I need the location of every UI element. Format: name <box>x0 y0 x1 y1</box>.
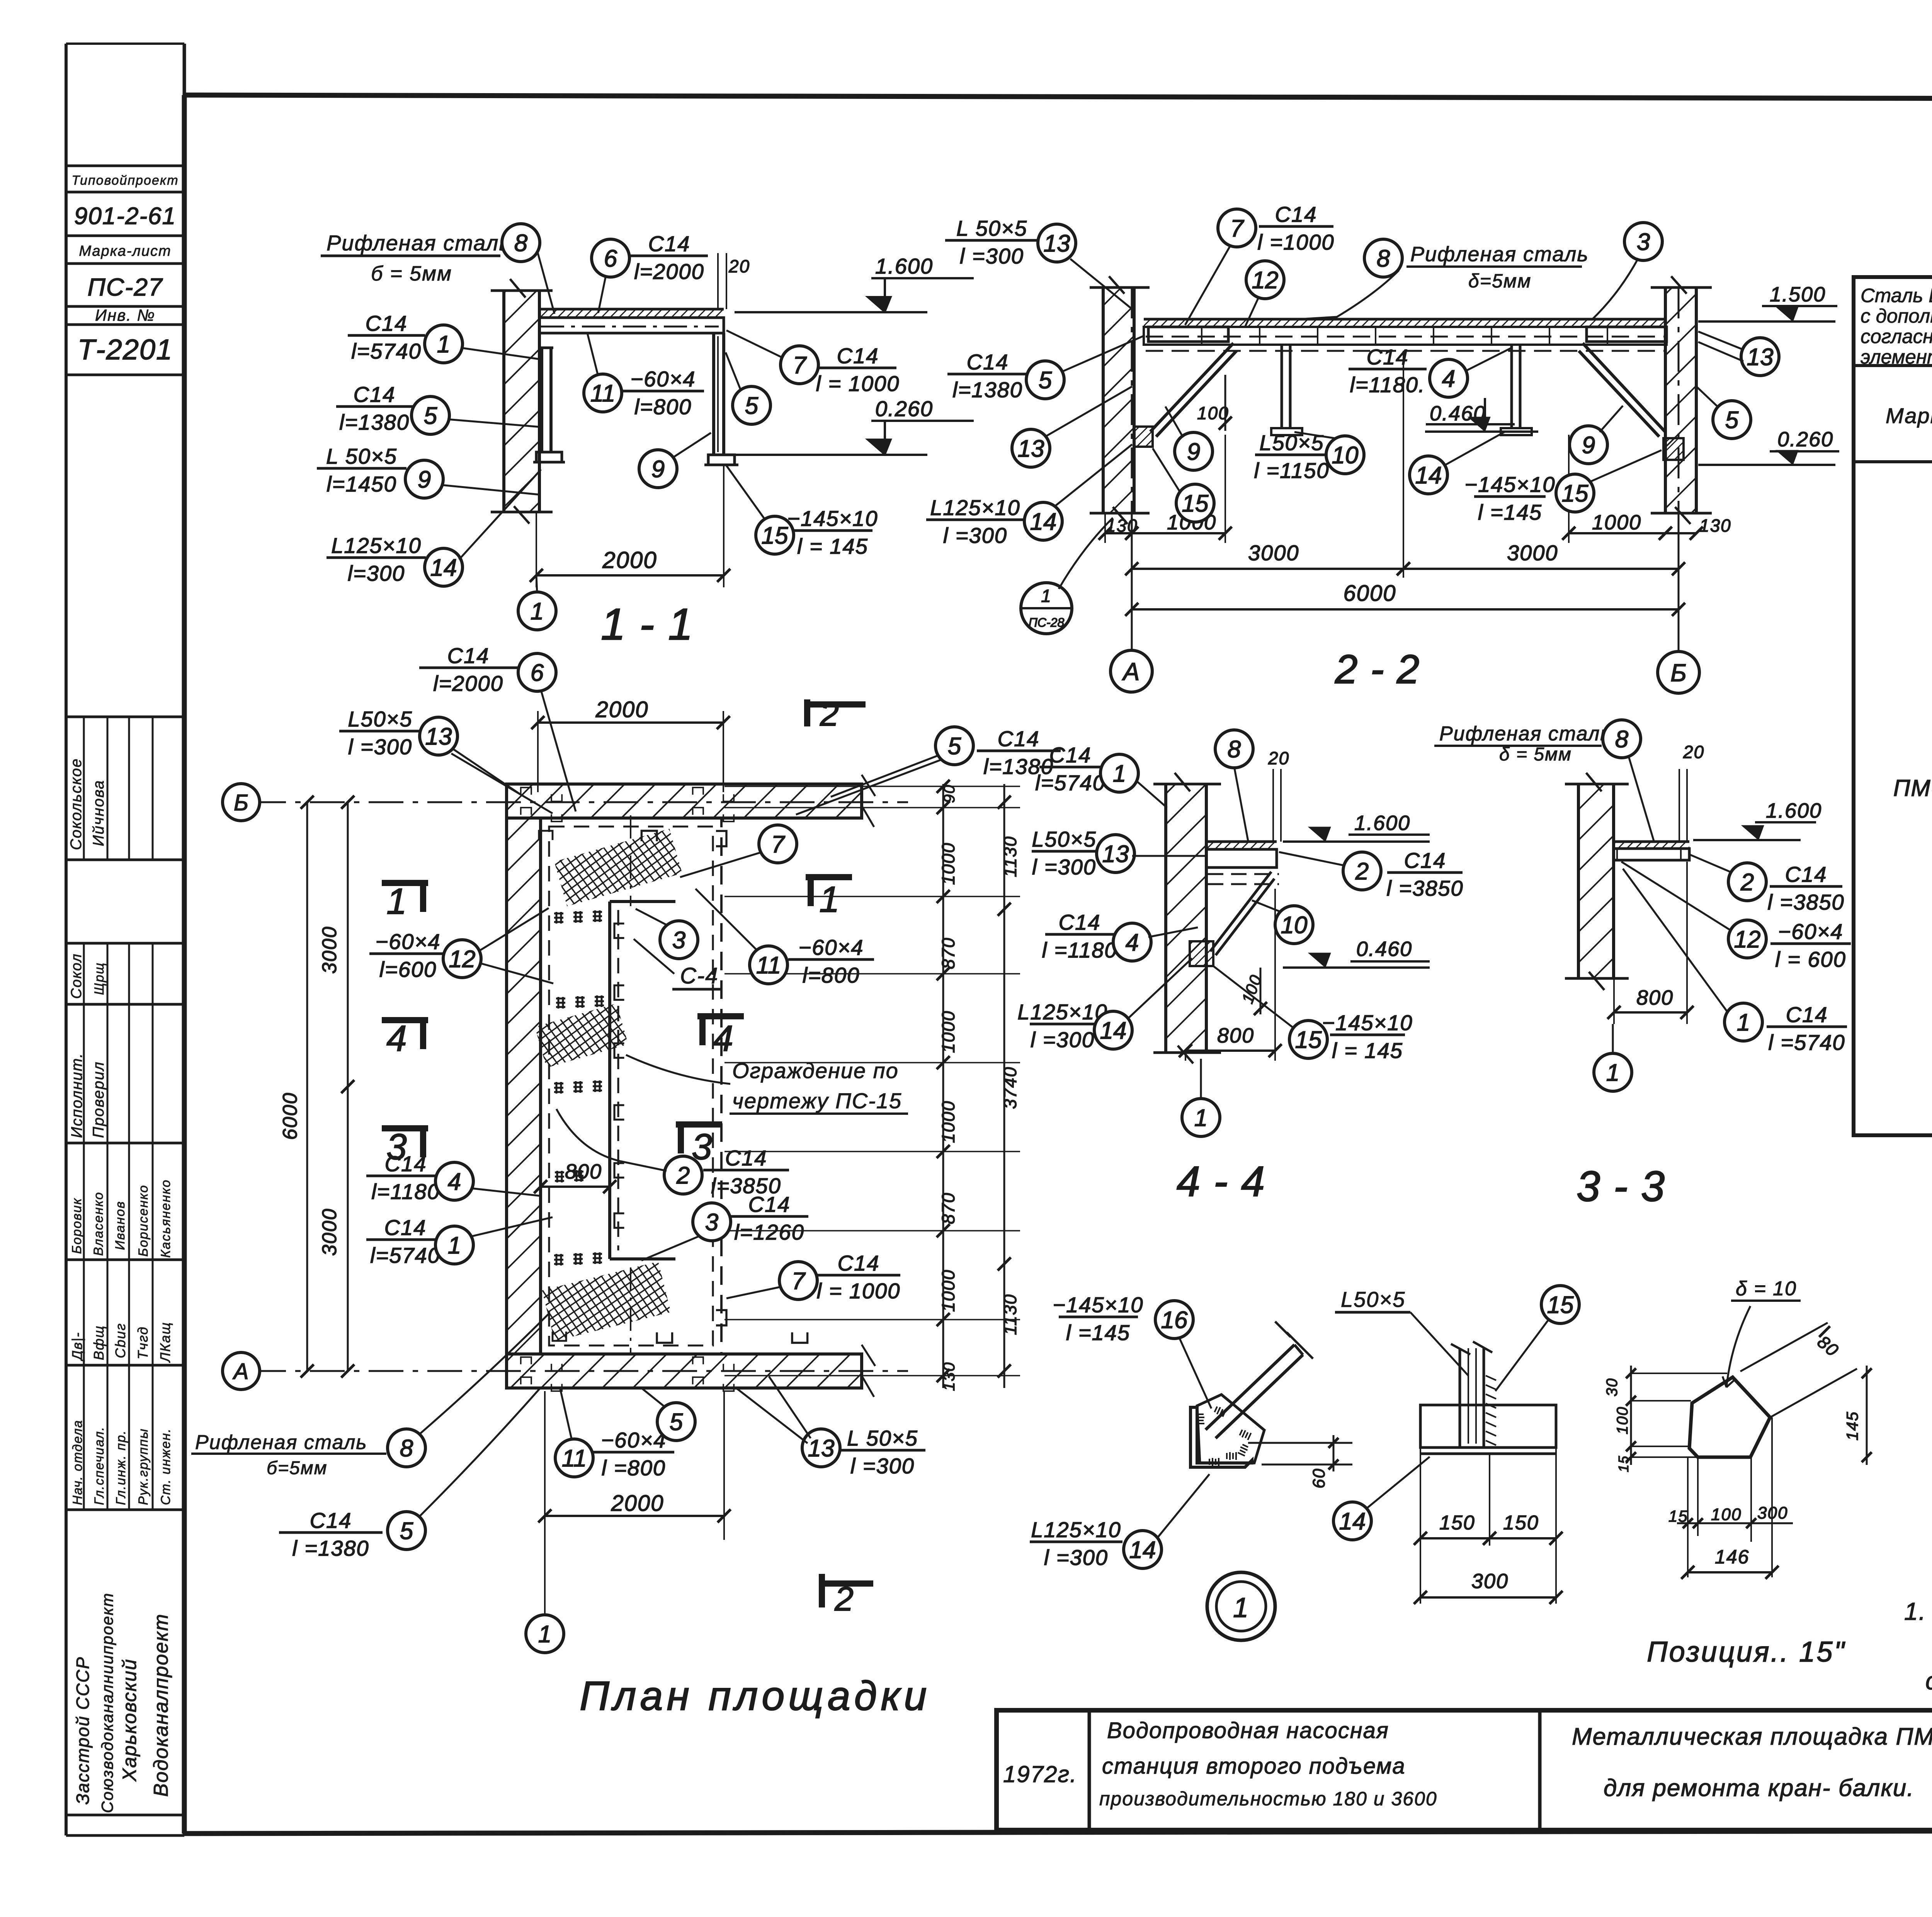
svg-text:11: 11 <box>562 1445 587 1472</box>
svg-text:−60×4: −60×4 <box>799 935 864 959</box>
svg-text:С14: С14 <box>998 726 1040 751</box>
section 1-1 node circle 1 <box>518 575 556 630</box>
svg-text:l=1180.: l=1180. <box>1350 373 1425 397</box>
svg-text:С14: С14 <box>1367 345 1409 369</box>
svg-text:1: 1 <box>1041 586 1052 606</box>
label L50x5 l=300 pos.13 top-left <box>945 216 1132 309</box>
svg-text:5: 5 <box>1039 367 1052 394</box>
svg-text:4: 4 <box>386 1018 408 1059</box>
svg-text:l =1380: l =1380 <box>292 1536 369 1560</box>
section 2-2 level 1.600 right <box>1698 283 1837 321</box>
svg-text:1: 1 <box>437 331 450 358</box>
svg-text:ПС-28: ПС-28 <box>1029 616 1065 629</box>
plan label fence note <box>626 1055 908 1114</box>
plan axis A line and circle <box>223 1352 908 1390</box>
svg-text:l=2000: l=2000 <box>634 259 704 284</box>
svg-text:15: 15 <box>762 522 788 549</box>
svg-text:3000: 3000 <box>318 1208 341 1256</box>
svg-text:14: 14 <box>1030 509 1057 535</box>
detail B dims 150/150/300 <box>1414 1448 1563 1604</box>
svg-text:14: 14 <box>1129 1537 1156 1563</box>
svg-text:9: 9 <box>1582 432 1595 459</box>
svg-text:8: 8 <box>400 1435 413 1462</box>
svg-text:5: 5 <box>400 1518 413 1544</box>
svg-text:5: 5 <box>1725 407 1739 434</box>
svg-text:Засстрой СССР: Засстрой СССР <box>73 1657 93 1805</box>
svg-text:15: 15 <box>1547 1292 1574 1318</box>
svg-text:l =145: l =145 <box>1066 1320 1130 1345</box>
svg-text:Рифленая сталь: Рифленая сталь <box>1410 243 1589 266</box>
svg-text:1: 1 <box>538 1621 551 1648</box>
plan riffled steel patch middle (mesh) <box>535 1004 628 1068</box>
svg-text:800: 800 <box>1217 1024 1254 1047</box>
svg-text:1: 1 <box>1233 1592 1249 1623</box>
svg-text:δ = 10: δ = 10 <box>1736 1277 1797 1300</box>
svg-text:Позиция.. 15": Позиция.. 15" <box>1647 1636 1846 1668</box>
svg-text:901-2-61: 901-2-61 <box>74 203 176 230</box>
plan riffled steel patch bottom (mesh) <box>542 1262 671 1341</box>
plan label circle 5 bottom <box>641 1388 695 1441</box>
svg-text:3000: 3000 <box>1248 541 1299 565</box>
svg-text:1: 1 <box>1113 760 1126 787</box>
section 1-1 level mark 0.260 <box>735 454 927 456</box>
label 4-4 L125x10 l=300 pos.14 <box>1017 958 1192 1052</box>
svg-text:Б: Б <box>234 790 248 815</box>
svg-text:l=1180: l=1180 <box>371 1179 440 1204</box>
svg-text:l=2000: l=2000 <box>433 671 503 696</box>
section 4-4 wall (hatched) <box>1153 773 1221 1063</box>
label 4-4 circle 8 <box>1215 730 1253 841</box>
section 2-2 deck riffled plate pos.8 <box>1144 319 1667 327</box>
svg-text:Типовойпроект: Типовойпроект <box>71 173 179 188</box>
label circle 5 right <box>1696 386 1751 439</box>
svg-text:l =145: l =145 <box>1478 500 1542 524</box>
svg-text:станция второго подъема: станция второго подъема <box>1102 1754 1406 1779</box>
plan section flag 2 bottom <box>822 1574 873 1618</box>
title block project name <box>1099 1718 1437 1810</box>
svg-text:С14: С14 <box>748 1192 791 1216</box>
svg-text:L 50×5: L 50×5 <box>326 444 397 468</box>
label L125x10 l=300 pos.14 <box>327 469 541 586</box>
svg-text:Б: Б <box>1670 659 1687 687</box>
svg-text:10: 10 <box>1332 442 1359 469</box>
plan label circle 3 top <box>636 909 698 959</box>
svg-text:Т-2201: Т-2201 <box>78 333 173 366</box>
label 3-3 -60x4 l=600 pos.12 <box>1621 862 1851 971</box>
label 4-4 L50x5 l=300 pos.13 <box>1032 827 1206 879</box>
svg-text:1 - 1: 1 - 1 <box>601 600 694 649</box>
plan left wall band (hatched) <box>507 818 541 1354</box>
svg-text:с дополнительными гарантиями з: с дополнительными гарантиями загиба в хо… <box>1861 305 1932 327</box>
svg-text:100: 100 <box>1614 1406 1631 1434</box>
svg-text:130: 130 <box>940 1362 958 1391</box>
svg-text:146: 146 <box>1715 1546 1749 1568</box>
title block sheet name <box>1572 1723 1932 1801</box>
plan section flag 1 right <box>806 877 852 920</box>
plan label -60x4 l=800 pos.11 top <box>696 889 874 987</box>
spec table grid <box>1854 366 1932 1135</box>
svg-text:1130: 1130 <box>1000 836 1020 877</box>
svg-text:l =300: l =300 <box>348 735 412 759</box>
svg-text:1: 1 <box>386 881 408 922</box>
svg-text:13: 13 <box>1018 435 1044 462</box>
svg-text:12: 12 <box>1252 267 1279 294</box>
svg-text:Водопроводная насосная: Водопроводная насосная <box>1107 1718 1389 1743</box>
label 4-4 C14 l=1180 pos.4 <box>1042 910 1198 962</box>
plan section flag 3 right <box>676 1124 722 1167</box>
svg-text:Исполнит.: Исполнит. <box>68 1053 85 1138</box>
svg-text:11: 11 <box>590 380 615 407</box>
svg-text:60: 60 <box>1310 1468 1328 1488</box>
plan bottom dim 2000 <box>538 1391 731 1613</box>
plan label riffled steel pos.8 bottom <box>191 1314 549 1478</box>
detail A label -145x10 l=145 pos.16 <box>1053 1293 1211 1408</box>
svg-text:1000: 1000 <box>938 1101 958 1143</box>
svg-text:ПС-27: ПС-27 <box>87 273 163 301</box>
svg-text:С14: С14 <box>1049 743 1092 767</box>
label riffled steel pos.8 top <box>1299 239 1589 319</box>
section 2-2 left hanger C14 pos.4 <box>1271 345 1302 435</box>
detail B label L50x5 pos.15 <box>1335 1286 1579 1391</box>
svg-text:Сталь ВК Ст.3кп для сварных ко: Сталь ВК Ст.3кп для сварных конструкций … <box>1861 284 1932 306</box>
detail A angle with strut pos.14/16 <box>1190 1322 1313 1467</box>
plan channel marks inner edge <box>539 831 808 1343</box>
label riffled steel pos.8 <box>321 224 554 314</box>
section 1-1 wall bracket pos.11 <box>533 348 565 462</box>
svg-text:Борисенко: Борисенко <box>136 1185 151 1257</box>
svg-text:совместно с листом ПС - 1: совместно с листом ПС - 1 <box>1925 1667 1932 1695</box>
svg-text:1000: 1000 <box>938 1269 958 1312</box>
svg-text:l=5740: l=5740 <box>370 1243 440 1267</box>
svg-text:Марка: Марка <box>1886 403 1932 428</box>
plan riffled steel patch top (mesh) <box>554 829 682 907</box>
label L50x5 l=1450 pos.9 <box>317 444 539 498</box>
svg-text:4: 4 <box>448 1169 461 1195</box>
svg-text:l =300: l =300 <box>1032 855 1096 879</box>
svg-text:Металлическая площадка ПМ-2: Металлическая площадка ПМ-2 <box>1572 1723 1932 1750</box>
svg-text:3: 3 <box>672 927 685 954</box>
svg-text:7: 7 <box>1230 215 1245 242</box>
section 4-4 strut <box>1210 872 1274 955</box>
plan label C14 l=1180 pos.4 left <box>366 1152 541 1204</box>
svg-text:16: 16 <box>1161 1307 1188 1334</box>
svg-text:Сокол: Сокол <box>68 953 85 999</box>
plan section flag 4 right <box>697 1016 744 1059</box>
section 2-2 right bracket beam <box>1587 327 1667 342</box>
svg-text:l =300: l =300 <box>850 1454 915 1478</box>
svg-text:L50×5: L50×5 <box>1341 1287 1405 1311</box>
svg-text:3000: 3000 <box>318 926 341 974</box>
plan bottom wall band (hatched) <box>507 1345 875 1397</box>
plan label C14 l=1260 pos.3 <box>641 1192 808 1260</box>
svg-text:1: 1 <box>1194 1105 1207 1131</box>
svg-text:С14: С14 <box>967 350 1009 374</box>
svg-text:870: 870 <box>938 937 958 969</box>
svg-text:Сbuг: Сbuг <box>112 1323 128 1358</box>
svg-text:С14: С14 <box>1785 862 1827 886</box>
svg-text:Рифленая сталь: Рифленая сталь <box>327 231 511 255</box>
label circle 13 right wall <box>1698 332 1779 376</box>
svg-text:Марка-лист: Марка-лист <box>79 243 171 259</box>
svg-text:150: 150 <box>1439 1512 1475 1534</box>
spec table header text <box>1886 376 1932 450</box>
section 1-1 level mark 1.600 <box>735 311 927 313</box>
svg-text:3 - 3: 3 - 3 <box>1577 1163 1665 1210</box>
detail node double circle 1 <box>1207 1572 1275 1640</box>
svg-text:4: 4 <box>1126 929 1139 956</box>
section 2-2 level 0.260 right <box>1698 428 1839 465</box>
section 2-2 bottom dims 130/1000 <box>1099 435 1731 543</box>
svg-text:2: 2 <box>1740 869 1754 896</box>
plan dim 800 <box>534 1160 616 1193</box>
svg-text:130: 130 <box>1106 515 1138 536</box>
section 2-2 dim 100 left <box>1197 375 1232 431</box>
title block frame <box>997 1710 1932 1830</box>
label -145x10 l=145 pos.15 right <box>1464 450 1662 524</box>
svg-text:производительностью 180 и 3600: производительностью 180 и 3600 <box>1099 1788 1437 1810</box>
section 4-4 dim 100 <box>1238 968 1267 1015</box>
label circle 9 right strut <box>1570 406 1623 464</box>
detail C gusset plate pentagon <box>1689 1277 1801 1457</box>
label -145x10 l=145 pos.15 <box>726 466 878 558</box>
svg-text:δ = 5мм: δ = 5мм <box>1499 744 1572 765</box>
svg-text:5: 5 <box>948 733 961 760</box>
svg-text:С-4: С-4 <box>680 963 718 988</box>
svg-text:20: 20 <box>1683 742 1704 762</box>
svg-text:1000: 1000 <box>1592 511 1641 534</box>
label circle 13 left small <box>1012 386 1132 467</box>
svg-text:−60×4: −60×4 <box>1778 919 1844 944</box>
svg-text:7: 7 <box>792 1268 806 1294</box>
label C14 l=1380 pos.5 <box>336 382 541 434</box>
svg-text:С14: С14 <box>1275 202 1317 226</box>
svg-text:С14: С14 <box>838 1251 880 1275</box>
plan top dim 2000 <box>531 697 730 792</box>
label C14 l=1380 pos.5 left <box>947 336 1143 402</box>
stamp signature grid columns <box>84 717 153 1510</box>
svg-text:800: 800 <box>565 1160 602 1183</box>
svg-text:3: 3 <box>705 1209 718 1236</box>
detail C left dims 30/100/15 <box>1604 1366 1727 1472</box>
plan top wall band (hatched) <box>507 775 875 827</box>
svg-text:L125×10: L125×10 <box>1031 1517 1121 1542</box>
plan section flag 3 left <box>382 1126 428 1167</box>
svg-text:Ийчнова: Ийчнова <box>90 780 107 846</box>
label C14 l=1000 pos.7 <box>726 330 900 396</box>
plan section flag 2 top <box>807 695 866 733</box>
svg-text:l =3850: l =3850 <box>1386 876 1463 900</box>
svg-text:−145×10: −145×10 <box>1053 1293 1143 1317</box>
label circle 14 right hanger foot <box>1410 432 1505 494</box>
section 2-2 left bracket beam pos.7 <box>1148 327 1228 342</box>
plan platform dashed outline <box>541 818 721 1354</box>
plan label C-4 <box>634 939 723 989</box>
spec table frame <box>1854 277 1932 1135</box>
stamp text: project codes <box>71 173 179 366</box>
svg-text:Сокольское: Сокольское <box>68 758 85 850</box>
svg-text:1.500: 1.500 <box>1770 283 1826 306</box>
svg-text:согласно п.2.5,2д и предельног: согласно п.2.5,2д и предельного содержан… <box>1861 325 1932 347</box>
section 2-2 right hanger C14 pos.4 <box>1501 345 1532 435</box>
section 2-2 right wall (hatched) <box>1651 276 1712 524</box>
svg-text:А: А <box>1122 658 1140 685</box>
svg-text:С14: С14 <box>354 382 396 407</box>
svg-text:800: 800 <box>1636 986 1673 1009</box>
svg-text:L50×5: L50×5 <box>1032 827 1096 851</box>
svg-text:1000: 1000 <box>938 842 958 885</box>
label C14 l=1000 pos.7 top <box>1185 202 1335 325</box>
left stamp strip frame <box>66 44 184 1835</box>
svg-text:5: 5 <box>670 1409 683 1436</box>
label circle 5 post <box>726 352 770 424</box>
svg-text:Иванов: Иванов <box>113 1201 128 1250</box>
plan section flag 4 left <box>382 1018 428 1059</box>
plan label C14 l=2000 pos.6 top <box>419 643 576 811</box>
section 2-2 left wall (hatched) <box>1090 276 1150 524</box>
svg-text:13: 13 <box>1747 344 1774 371</box>
label fraction circle 1/PS-28 <box>1021 518 1113 634</box>
plan label -60x4 l=800 pos.11 bottom <box>555 1389 674 1480</box>
svg-text:Гл.спечиал.: Гл.спечиал. <box>92 1426 107 1505</box>
spec table steel note text <box>1861 284 1932 368</box>
svg-text:б=5мм: б=5мм <box>267 1458 328 1478</box>
section 4-4 node circle 1 <box>1182 1059 1220 1136</box>
svg-text:7: 7 <box>771 831 786 858</box>
svg-text:l = 1000: l = 1000 <box>816 371 900 396</box>
svg-text:2000: 2000 <box>602 547 657 573</box>
svg-text:5: 5 <box>745 393 759 419</box>
svg-text:2 - 2: 2 - 2 <box>1335 647 1420 692</box>
svg-text:15: 15 <box>1562 480 1588 507</box>
svg-text:12: 12 <box>1734 926 1761 953</box>
detail C dim 80 diagonal <box>1740 1323 1857 1417</box>
label C14 l=1180 pos.4 <box>1349 345 1512 397</box>
svg-text:А: А <box>233 1359 249 1384</box>
plan label C14 l=5740 pos.1 left <box>366 1215 553 1267</box>
plan left dims 3000/3000/6000 <box>279 796 354 1378</box>
svg-text:0.260: 0.260 <box>1777 428 1833 451</box>
spec table data <box>1893 477 1932 1105</box>
section 4-4 wall anchor <box>1190 941 1213 966</box>
svg-text:8: 8 <box>1377 245 1390 272</box>
svg-text:1972г.: 1972г. <box>1003 1761 1077 1787</box>
svg-text:l =300: l =300 <box>960 244 1024 268</box>
svg-text:6000: 6000 <box>279 1092 301 1140</box>
svg-text:План площадки: План площадки <box>580 1673 930 1719</box>
svg-text:Дв|-: Дв|- <box>69 1332 85 1362</box>
svg-text:Щрщ: Щрщ <box>92 962 107 995</box>
svg-text:20: 20 <box>728 256 750 276</box>
svg-text:12: 12 <box>449 946 476 973</box>
svg-text:1130: 1130 <box>1000 1294 1020 1335</box>
svg-text:30: 30 <box>1604 1378 1621 1397</box>
svg-text:6000: 6000 <box>1343 581 1396 606</box>
label circle 6 C14 l=2000 <box>592 231 708 313</box>
svg-text:2: 2 <box>1355 858 1369 885</box>
svg-text:10: 10 <box>1281 912 1308 939</box>
svg-text:Харьковский: Харьковский <box>119 1658 140 1782</box>
label 4-4 -145x10 l=145 pos.15 <box>1213 966 1413 1063</box>
svg-text:ПМ-2: ПМ-2 <box>1893 775 1932 801</box>
label 3-3 C14 l=3850 pos.2 <box>1690 855 1845 914</box>
detail A dim 60 <box>1248 1435 1352 1488</box>
svg-text:870: 870 <box>938 1192 958 1224</box>
section 2-2 level 0.460 middle <box>1425 398 1538 432</box>
svg-text:13: 13 <box>425 723 452 750</box>
label L50x5 l=1150 pos.10 <box>1254 430 1364 483</box>
svg-text:ЛКащ: ЛКащ <box>157 1322 173 1363</box>
svg-text:Союзводоканалниипроект: Союзводоканалниипроект <box>98 1592 116 1813</box>
svg-text:3740: 3740 <box>1000 1067 1020 1109</box>
svg-text:l = 145: l = 145 <box>1332 1038 1403 1063</box>
svg-text:11: 11 <box>756 952 781 979</box>
svg-text:4 - 4: 4 - 4 <box>1177 1158 1265 1205</box>
svg-text:2: 2 <box>676 1162 690 1189</box>
svg-text:δ=5мм: δ=5мм <box>1468 270 1531 292</box>
svg-text:15: 15 <box>1668 1507 1688 1525</box>
plan inner edge C-line <box>610 902 675 1259</box>
section 1-1 dim 2000 <box>530 465 730 587</box>
svg-text:l=1260: l=1260 <box>734 1220 804 1244</box>
plan corner connector marks <box>521 788 734 1391</box>
section 2-2 axis circles A and B <box>1111 287 1699 693</box>
svg-text:2000: 2000 <box>595 697 648 722</box>
svg-text:С14: С14 <box>447 643 490 668</box>
svg-text:l=800: l=800 <box>803 963 860 987</box>
stamp rotated names <box>68 758 173 1813</box>
plan section flag 1 left <box>382 881 428 922</box>
plan right inner dim chain <box>724 780 1020 1391</box>
svg-text:Касьяненко: Касьяненко <box>158 1179 173 1258</box>
label 3-3 C14 l=5740 pos.1 <box>1623 869 1847 1055</box>
svg-text:3: 3 <box>1637 229 1650 255</box>
section 3-3 wall (hatched) <box>1565 773 1629 990</box>
section 3-3 dim 800 <box>1607 862 1694 1024</box>
svg-text:L 50×5: L 50×5 <box>956 216 1027 240</box>
svg-text:−145×10: −145×10 <box>1464 472 1555 497</box>
svg-text:С14: С14 <box>648 231 690 256</box>
plan label L50x5 l=300 pos.13 top <box>339 707 553 813</box>
detail B base plate with angle pos.14/15 <box>1420 1342 1556 1454</box>
label C14 l=5740 pos.1 <box>348 311 541 363</box>
svg-text:145: 145 <box>1843 1411 1861 1441</box>
label 4-4 circle 10 <box>1252 900 1313 944</box>
section 4-4 deck <box>1206 842 1279 884</box>
svg-text:Рук.группы: Рук.группы <box>136 1428 151 1505</box>
svg-text:9: 9 <box>418 466 431 493</box>
svg-text:6: 6 <box>604 245 617 272</box>
svg-text:9: 9 <box>651 456 665 483</box>
svg-text:L 50×5: L 50×5 <box>847 1426 918 1450</box>
svg-text:14: 14 <box>1339 1508 1366 1535</box>
svg-text:15: 15 <box>1182 490 1209 517</box>
svg-text:Проверил: Проверил <box>90 1061 107 1138</box>
svg-text:6: 6 <box>531 660 544 686</box>
plan label C14 l=1000 pos.7 bottom <box>726 1251 900 1303</box>
section 1-1 post C14 pos.5 <box>704 333 738 465</box>
svg-text:l=1380: l=1380 <box>339 410 410 434</box>
label circle 9 strut <box>639 433 711 488</box>
svg-text:4: 4 <box>1442 366 1455 392</box>
section 3-3 rail post dashed <box>1679 742 1704 842</box>
svg-text:С14: С14 <box>385 1152 427 1176</box>
svg-text:l =1180: l =1180 <box>1042 938 1117 962</box>
svg-text:L125×10: L125×10 <box>1017 1000 1108 1024</box>
label circle 3 right beam <box>1592 223 1662 320</box>
section 2-2 right strut pos.9 <box>1579 343 1665 437</box>
svg-text:l=300: l=300 <box>348 561 405 585</box>
svg-text:Рифленая сталь: Рифленая сталь <box>195 1431 367 1454</box>
